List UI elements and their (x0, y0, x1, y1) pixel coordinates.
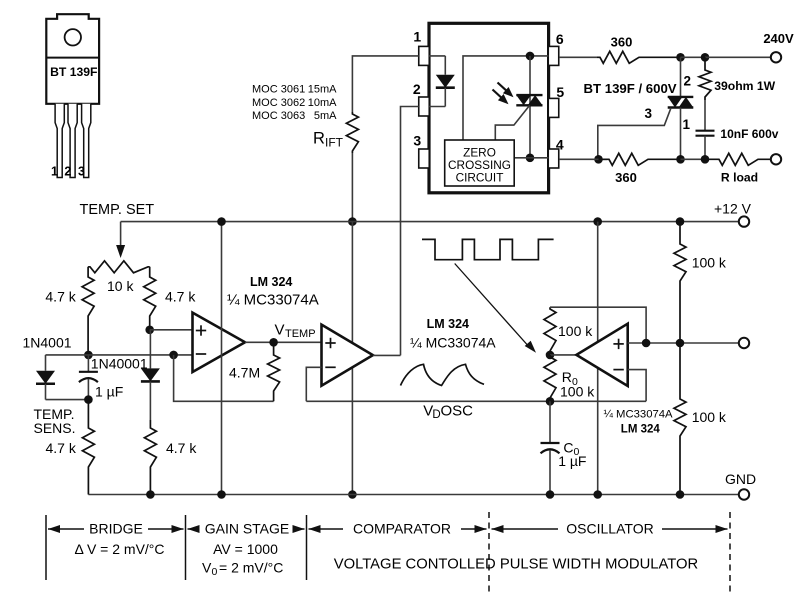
gain stage dimension arrows (188, 525, 305, 533)
svg-text:CIRCUIT: CIRCUIT (456, 171, 504, 185)
U1 minus sign (196, 353, 206, 355)
svg-text:1: 1 (683, 117, 691, 132)
osc feedback top wire (550, 307, 646, 343)
wire pin6 line (559, 56, 597, 58)
svg-text:100 k: 100 k (692, 409, 727, 425)
label BT 139F / 600V (584, 81, 677, 96)
MOC types table (252, 84, 337, 122)
capacitor 10nF snubber (696, 100, 715, 159)
svg-text:100 k: 100 k (692, 255, 727, 271)
svg-text:360: 360 (611, 35, 633, 50)
wire RIFT to +12V rail (351, 153, 353, 222)
svg-text:OSC: OSC (441, 403, 474, 420)
svg-text:360: 360 (615, 170, 637, 185)
svg-text:10 k: 10 k (107, 278, 134, 294)
U2 minus input wire (306, 367, 321, 401)
resistor 4.7M feedback (268, 342, 280, 401)
label 100 k osc top (558, 323, 593, 339)
temp set wire with arrow (116, 222, 125, 258)
label delta V (74, 541, 164, 557)
label quarter MC33074A comparator (410, 335, 496, 351)
svg-text:4.7 k: 4.7 k (45, 289, 76, 305)
label 39ohm 1W (714, 79, 775, 93)
package label BT 139F (50, 65, 97, 79)
zero crossing circuit box (445, 140, 515, 186)
svg-text:4: 4 (556, 137, 564, 153)
svg-text:1: 1 (413, 29, 421, 45)
label TEMP. SENS. (34, 406, 76, 436)
wire triac bottom to snubber (681, 158, 706, 160)
svg-text:OSCILLATOR: OSCILLATOR (566, 521, 653, 537)
svg-text:1 µF: 1 µF (558, 453, 586, 469)
resistor 360 bottom (599, 153, 681, 165)
node triac bottom (676, 155, 685, 164)
svg-text:100 k: 100 k (558, 323, 593, 339)
comparator dimension arrows (309, 525, 487, 533)
section bar 4 dashed (488, 512, 490, 595)
triac package outline BT 139F (TO-220F) (46, 14, 99, 104)
label 1 uF C0 (558, 453, 586, 469)
label quarter MC33074A gain (227, 292, 319, 309)
pin 5 label (556, 84, 564, 100)
label 1 uF bridge (95, 384, 123, 400)
LED D1 inside optocoupler (436, 56, 455, 107)
pin 1 terminal (419, 46, 430, 65)
terminal R load (771, 154, 781, 164)
minus line wire (46, 354, 174, 356)
svg-text:COMPARATOR: COMPARATOR (353, 521, 451, 537)
pin 6 label (556, 31, 564, 47)
wire minus input (174, 354, 193, 356)
label 4.7M (229, 365, 260, 381)
svg-text:¼ MC33074A: ¼ MC33074A (604, 409, 674, 421)
node rail-GND (348, 490, 357, 499)
label C0 (563, 440, 579, 459)
label 360 top (611, 35, 633, 50)
svg-text:100 k: 100 k (560, 384, 595, 400)
node oscillator rail (593, 217, 602, 226)
node x222 bottom (217, 490, 226, 499)
svg-text:5mA: 5mA (314, 110, 337, 122)
node osc summing (546, 351, 555, 360)
svg-text:10nF 600v: 10nF 600v (720, 127, 778, 141)
wire LED cathode to pin2 (429, 106, 445, 108)
pin 1 label (413, 29, 421, 45)
U2 output wire (373, 354, 401, 356)
label 240V (763, 31, 794, 46)
terminal GND (739, 489, 749, 499)
triac pin 1 label (683, 117, 691, 132)
node divider rail top (676, 217, 685, 226)
svg-text:V: V (275, 322, 285, 339)
package pin number 2 (64, 165, 71, 179)
square wave drawing (422, 239, 554, 259)
pin 2 terminal (419, 97, 430, 116)
bridge dimension arrows (48, 525, 184, 533)
svg-text:2: 2 (684, 74, 692, 89)
label VTEMP (275, 322, 316, 341)
node plus input (145, 326, 154, 335)
triac gate wire (598, 108, 671, 160)
U1 output wire (245, 341, 322, 343)
U3 plus sign (613, 339, 623, 349)
svg-text:R: R (313, 130, 325, 148)
label LM 324 osc (621, 424, 661, 436)
svg-text:TEMP. SET: TEMP. SET (80, 202, 155, 218)
svg-text:+12 V: +12 V (714, 201, 752, 217)
svg-text:MOC 3062: MOC 3062 (252, 97, 305, 109)
photo-triac inside optocoupler (516, 95, 542, 105)
wire rail to GND crossing (351, 222, 353, 495)
node photo-triac top (526, 52, 535, 61)
bridge right lower 4.7k (144, 420, 156, 495)
diode 1N40001 right (141, 330, 160, 420)
pin 5 terminal (548, 98, 559, 117)
wire triac column top (680, 57, 682, 97)
svg-text:1N40001: 1N40001 (91, 356, 148, 372)
label +12 V (714, 201, 752, 217)
wire pin1 to RIFT (352, 56, 418, 112)
wire pin2 to comparator output (401, 107, 419, 356)
node VTEMP (269, 338, 278, 347)
capacitor C0 (541, 401, 560, 494)
label TEMP. SET (80, 202, 155, 218)
svg-text:2: 2 (413, 81, 421, 97)
svg-text:AV = 1000: AV = 1000 (213, 541, 278, 557)
label RIFT (313, 130, 344, 150)
package leg 3 (82, 104, 91, 178)
label 4.7 k lower-right (166, 440, 197, 456)
label 1N40001 (91, 356, 148, 372)
svg-text:MOC 3061: MOC 3061 (252, 84, 305, 96)
label 4.7 k upper-right (165, 289, 196, 305)
diode 1N4001 left (36, 355, 55, 400)
triac pin 2 label (684, 74, 692, 89)
U2 minus sign (325, 366, 335, 368)
label 100 k divider top (692, 255, 727, 271)
package leg 2 (68, 104, 77, 178)
label quarter MC33074A osc (604, 409, 674, 421)
svg-text:2: 2 (64, 165, 71, 179)
sawtooth waveform drawing (401, 364, 485, 385)
svg-text:¼ MC33074A: ¼ MC33074A (227, 292, 319, 309)
svg-text:10mA: 10mA (308, 97, 337, 109)
svg-text:IFT: IFT (325, 136, 344, 150)
wire pin1 to LED anode (429, 55, 445, 57)
vertical line x=222 (221, 222, 223, 495)
wire summing to apex (550, 354, 576, 356)
svg-text:R load: R load (721, 171, 758, 185)
op-amp U3 oscillator (576, 324, 627, 386)
U3 minus wire to VDOSC (628, 370, 646, 402)
label BRIDGE (89, 521, 143, 537)
bridge right upper leg 4.7k (144, 267, 156, 330)
pin 4 terminal (548, 149, 559, 168)
node cap bottom (84, 395, 93, 404)
U2 plus sign (325, 338, 335, 348)
terminal 240V (771, 52, 781, 62)
node RIFT rail (348, 217, 357, 226)
svg-text:3: 3 (413, 133, 421, 149)
svg-text:LM 324: LM 324 (427, 317, 469, 331)
svg-text:4.7 k: 4.7 k (165, 289, 196, 305)
U3 minus sign (613, 369, 623, 371)
resistor 39ohm snubber (699, 57, 711, 100)
svg-text:BT 139F: BT 139F (50, 65, 97, 79)
label GND (725, 471, 756, 487)
pin 4 label (556, 137, 564, 153)
oscillator dimension arrows (492, 525, 728, 533)
label 100 k divider bottom (692, 409, 727, 425)
oscillator rail drop wire (597, 222, 599, 495)
svg-text:D: D (432, 409, 440, 421)
section bar left (45, 515, 47, 580)
node C0 GND (546, 490, 555, 499)
pin 2 label (413, 81, 421, 97)
section bar 5 dashed (729, 512, 731, 595)
node feedback join (642, 339, 651, 348)
package pin number 3 (78, 165, 85, 179)
svg-text:240V: 240V (763, 31, 794, 46)
photo-triac gate wire (495, 105, 529, 140)
label R0 (562, 369, 578, 388)
node gate on bottom wire (594, 155, 603, 164)
resistor R0 100k (544, 355, 556, 401)
section bar 2 (185, 515, 187, 580)
label AV = 1000 (213, 541, 278, 557)
svg-text:0: 0 (212, 566, 218, 578)
feedback wire to 4.7M (174, 355, 274, 401)
triac pin 3 label (644, 106, 652, 121)
wire pin6 internal to photo-triac (463, 56, 549, 140)
label 100 k R0 (560, 384, 595, 400)
label 10 k (107, 278, 134, 294)
capacitor 1uF bridge (79, 355, 98, 400)
VDOSC line (306, 400, 646, 402)
bridge left upper leg 4.7k (82, 267, 94, 355)
node snubber top (701, 53, 710, 62)
label 4.7 k sensor (46, 440, 77, 456)
node R0 bottom (546, 397, 555, 406)
svg-text:VOLTAGE CONTOLLED PULSE WIDTH: VOLTAGE CONTOLLED PULSE WIDTH MODULATOR (334, 557, 699, 573)
svg-text:¼ MC33074A: ¼ MC33074A (410, 335, 496, 351)
svg-text:BT 139F / 600V: BT 139F / 600V (584, 81, 677, 96)
svg-text:= 2 mV/°C: = 2 mV/°C (219, 560, 283, 576)
label 360 bottom (615, 170, 637, 185)
+12V rail wire (121, 221, 739, 223)
wire triac column bottom (680, 108, 682, 160)
wire pin4 line (559, 158, 607, 160)
label R load (721, 171, 758, 185)
wire plus input (150, 329, 193, 331)
pointer arrow to R0 node (455, 264, 536, 353)
label 4.7 k upper-left (45, 289, 76, 305)
svg-text:SENS.: SENS. (34, 420, 76, 436)
zero crossing circuit label (448, 146, 511, 185)
svg-text:5: 5 (556, 84, 564, 100)
svg-text:1: 1 (51, 165, 58, 179)
svg-text:BRIDGE: BRIDGE (89, 521, 143, 537)
node minus line left (84, 351, 93, 360)
svg-text:Δ V = 2 mV/°C: Δ V = 2 mV/°C (74, 541, 164, 557)
resistor 100k osc top (544, 307, 556, 355)
svg-text:39ohm 1W: 39ohm 1W (714, 79, 775, 93)
terminal +12V (739, 216, 749, 226)
pin 3 label (413, 133, 421, 149)
svg-text:1 µF: 1 µF (95, 384, 123, 400)
svg-text:6: 6 (556, 31, 564, 47)
resistor 100k divider bottom (674, 343, 686, 495)
temp sensor resistor 4.7k (82, 400, 94, 495)
svg-text:LM 324: LM 324 (250, 275, 292, 289)
label LM 324 gain (250, 275, 292, 289)
label V0 = 2mV/C (202, 560, 283, 579)
label GAIN STAGE (205, 521, 290, 537)
svg-text:1N4001: 1N4001 (23, 335, 72, 351)
node x222 top (217, 217, 226, 226)
svg-text:TEMP: TEMP (285, 328, 316, 340)
resistor 100k divider top (674, 222, 686, 343)
node snubber bottom (701, 155, 710, 164)
resistor 360 top (597, 51, 681, 63)
svg-text:3: 3 (78, 165, 85, 179)
node oscillator rail GND (593, 490, 602, 499)
wire node to snubber top (681, 56, 706, 58)
U3 plus wire to divider (628, 342, 739, 344)
op-amp U2 comparator (322, 325, 373, 386)
node divider GND (676, 490, 685, 499)
package pin number 1 (51, 165, 58, 179)
terminal oscillator output (739, 338, 749, 348)
svg-text:4.7M: 4.7M (229, 365, 260, 381)
svg-text:LM 324: LM 324 (621, 424, 661, 436)
node feedback tap (169, 351, 178, 360)
svg-text:3: 3 (644, 106, 652, 121)
label COMPARATOR (353, 521, 451, 537)
wire photo-triac to pin4 (514, 157, 549, 159)
wire to 240V terminal (705, 56, 771, 58)
light arrow 1 (498, 83, 514, 98)
pin 3 terminal (419, 149, 430, 168)
svg-text:V: V (202, 560, 212, 576)
node right leg GND (146, 490, 155, 499)
svg-text:MOC 3063: MOC 3063 (252, 110, 305, 122)
svg-text:15mA: 15mA (308, 84, 337, 96)
U1 plus sign (196, 325, 206, 335)
label 1N4001 (23, 335, 72, 351)
label 10nF 600v (720, 127, 778, 141)
optocoupler MOC30xx box (429, 23, 549, 193)
svg-text:GAIN STAGE: GAIN STAGE (205, 521, 290, 537)
resistor R load (705, 153, 771, 165)
wire diode to cap bottom (46, 399, 89, 401)
pin 6 terminal (548, 46, 559, 65)
package leg 1 (55, 104, 64, 178)
potentiometer 10 k (88, 261, 150, 273)
svg-text:4.7 k: 4.7 k (46, 440, 77, 456)
label OSCILLATOR (566, 521, 653, 537)
svg-text:4.7 k: 4.7 k (166, 440, 197, 456)
section bar 3 (306, 515, 308, 580)
label VOLTAGE CONTOLLED PULSE WIDTH MODULATOR (334, 557, 699, 573)
label VDOSC (423, 403, 473, 422)
label LM 324 comparator (427, 317, 469, 331)
GND rail wire (88, 494, 738, 496)
svg-text:GND: GND (725, 471, 756, 487)
node divider mid (676, 339, 685, 348)
node photo-triac bottom (526, 154, 535, 163)
node triac top (676, 53, 685, 62)
light arrow 2 (493, 90, 509, 105)
wire photo-triac vertical (529, 56, 531, 158)
triac BT139F symbol (668, 97, 694, 108)
resistor RIFT (346, 112, 358, 153)
op-amp U1 gain stage (193, 313, 246, 372)
